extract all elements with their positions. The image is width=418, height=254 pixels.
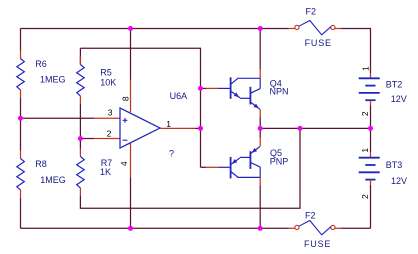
wire from bottom fuse to battery column: [341, 227, 371, 229]
svg-text:R6: R6: [35, 59, 47, 69]
svg-text:1MEG: 1MEG: [40, 74, 66, 84]
resistor R8: [17, 151, 25, 198]
Q4 emitter pin stub: [259, 109, 261, 117]
wire BT3 bottom to bottom rail: [370, 185, 372, 228]
wire bottom fuse right pin stub: [335, 227, 341, 229]
junction bottom rail x Q5 collector: [258, 226, 263, 231]
wire Q4 collector to top rail: [259, 29, 261, 70]
wire R7 bottom over to mid node B: [80, 128, 300, 208]
Q5 collector pin stub: [259, 177, 261, 185]
resistor R7: [77, 149, 85, 196]
fuse F2 (top): [295, 21, 335, 35]
wire R8 bottom to bottom-left corner: [20, 198, 22, 228]
wire mid rail from emitters to battery: [260, 127, 370, 129]
svg-text:1: 1: [360, 66, 370, 71]
transistor Q4 (NPN darlington): [219, 77, 261, 109]
junction node A (R6/R8/pin3): [18, 116, 23, 121]
wire Q5 collector to bottom rail: [259, 186, 261, 229]
svg-text:10K: 10K: [100, 78, 116, 88]
wire output to bases column: [195, 127, 201, 129]
svg-text:F2: F2: [306, 6, 317, 16]
resistor R5: [77, 48, 85, 104]
Q4 collector pin stub: [259, 69, 261, 78]
wire R5 bottom to pin2 node: [79, 104, 81, 139]
junction top rail x Q4 collector: [258, 26, 263, 31]
svg-text:8: 8: [121, 96, 131, 101]
op-amp pin 3 stub: [94, 117, 120, 119]
junction output x bases column: [198, 126, 203, 131]
svg-text:FUSE: FUSE: [304, 239, 331, 249]
svg-text:FUSE: FUSE: [305, 38, 332, 48]
junction R5 bottom x pin2: [78, 136, 83, 141]
svg-text:F2: F2: [305, 210, 316, 220]
wire top fuse left pin stub: [289, 28, 295, 30]
junction mid node B (R7 tap): [298, 126, 303, 131]
svg-text:BT2: BT2: [386, 80, 403, 90]
resistor R6: [17, 51, 25, 98]
fuse F2 (bottom): [295, 221, 335, 235]
wire pin 8 to top rail: [130, 29, 132, 80]
wire from top fuse to battery column: [341, 29, 371, 74]
wire R6 bottom to node A: [20, 98, 22, 118]
svg-text:PNP: PNP: [270, 157, 289, 167]
svg-text:12V: 12V: [391, 94, 407, 104]
wire node A down to R8: [20, 118, 22, 150]
wire left column top: [20, 29, 22, 51]
wire node A to op-amp pin 3: [21, 117, 95, 119]
svg-text:1MEG: 1MEG: [40, 175, 66, 185]
junction top rail x pin8: [128, 26, 133, 31]
op-amp pin 8 stub: [130, 80, 132, 113]
wire BT2 bottom to mid rail: [370, 106, 372, 129]
svg-text:1: 1: [360, 148, 370, 153]
wire top rail: [21, 28, 289, 30]
svg-text:?: ?: [169, 149, 174, 159]
svg-text:2: 2: [360, 194, 370, 199]
junction R5 feedback x Q4 base: [198, 86, 203, 91]
svg-text:BT3: BT3: [386, 160, 403, 170]
wire bases column (Q4 base to Q5 base): [200, 88, 202, 167]
junction battery mid node: [368, 126, 373, 131]
transistor Q5 (PNP darlington): [219, 147, 261, 179]
wire Q4 emitter to mid node: [259, 118, 261, 129]
battery BT2: [359, 73, 380, 106]
svg-text:1: 1: [166, 119, 171, 129]
wire pin 4 to bottom rail: [130, 178, 132, 229]
op-amp pin 2 stub: [94, 138, 120, 140]
svg-text:12V: 12V: [391, 176, 407, 186]
op-amp pin 4 stub: [130, 144, 132, 178]
svg-text:NPN: NPN: [270, 87, 289, 97]
Q5 emitter pin stub: [259, 138, 261, 146]
wire Q4 base: [201, 87, 207, 89]
wire pin2 node down to R7: [79, 139, 81, 149]
wire Q5 emitter to mid node: [259, 128, 261, 138]
svg-text:2: 2: [107, 128, 112, 138]
wire bottom rail: [21, 227, 289, 229]
svg-text:4: 4: [119, 161, 129, 166]
svg-text:U6A: U6A: [170, 91, 188, 101]
battery BT3: [359, 128, 380, 185]
Q5 base pin stub: [206, 166, 219, 168]
svg-text:R8: R8: [35, 159, 47, 169]
op-amp output pin 1 stub: [161, 127, 196, 129]
wire R5 top feedback over to bases column: [80, 48, 200, 88]
op-amp U6A: [120, 108, 160, 148]
Q4 base pin stub: [206, 87, 219, 89]
junction bottom rail x pin4: [128, 226, 133, 231]
svg-text:1K: 1K: [100, 167, 111, 177]
wire pin2 node to op-amp pin 2: [80, 138, 94, 140]
svg-text:2: 2: [360, 111, 370, 116]
svg-text:R5: R5: [100, 68, 112, 78]
wire Q5 base: [201, 166, 207, 168]
wire top fuse right pin stub: [335, 28, 341, 30]
junction emitters mid node: [258, 126, 263, 131]
wire bottom fuse left pin stub: [289, 227, 295, 229]
svg-text:3: 3: [108, 107, 113, 117]
